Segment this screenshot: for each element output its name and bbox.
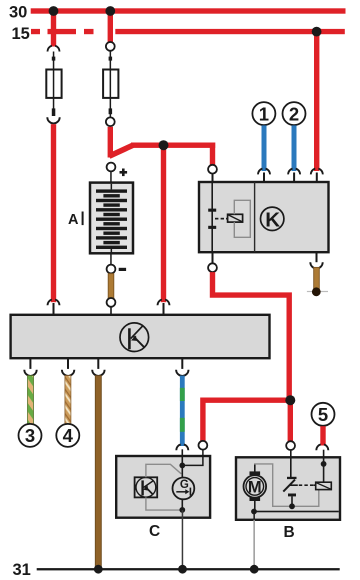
svg-text:A: A	[68, 212, 79, 228]
motor top lead	[254, 464, 256, 472]
B ground stem through box	[253, 512, 255, 520]
wire: brown relay to ground	[314, 267, 320, 289]
wire: red from fuse S2 to battery plus	[108, 127, 113, 158]
C internal grey link bottom	[146, 497, 180, 510]
wire: blue from terminal 1 to relay	[262, 125, 267, 171]
svg-text:C: C	[149, 523, 160, 540]
wire: red from bus15 down to relay	[314, 32, 319, 171]
minus sign	[119, 268, 126, 271]
C pin from red terminal	[183, 450, 203, 466]
connector circle at C (red)	[199, 441, 208, 450]
relay top-left pin	[212, 174, 214, 183]
motor brushes	[250, 471, 261, 475]
node dot motor ground	[251, 509, 257, 515]
connector arc at C top	[176, 444, 180, 450]
wire: brown to ground 31	[95, 376, 101, 569]
wire: tan/white to terminal 4	[65, 376, 71, 425]
cluster bottom pin 4	[181, 358, 183, 369]
pump motor M	[244, 475, 267, 498]
battery A box	[90, 183, 133, 254]
svg-text:15: 15	[12, 25, 30, 43]
relay internal divider	[254, 182, 255, 252]
wire: red from bus30 to fuse S2	[108, 11, 113, 42]
connector circle relay bottom-left	[208, 263, 217, 272]
fuse S2 lead	[110, 51, 112, 70]
cluster bottom pin 2	[67, 358, 69, 369]
fuse S1	[46, 70, 61, 98]
connector arc above fuse S1	[47, 46, 51, 52]
relay winding bars	[208, 209, 216, 212]
relay internal grey bracket	[234, 200, 250, 237]
wire: red junction to sender C	[203, 400, 293, 441]
sender unit C box	[116, 456, 210, 518]
terminal circle 1	[252, 102, 275, 125]
bus 31	[37, 568, 340, 570]
wire: red down to relay top-left terminal	[210, 143, 215, 165]
B internal ground rail	[254, 511, 339, 513]
wire: red from junction down to cluster box	[161, 145, 166, 302]
B internal grey link	[254, 464, 319, 506]
wire: red junction down to pump B	[288, 400, 293, 441]
ground rail hint	[307, 291, 328, 292]
switch ground stem	[291, 496, 293, 506]
battery plates	[96, 189, 127, 192]
wire: red from bus30 to fuse S1	[51, 11, 56, 47]
switch top contact	[287, 477, 297, 479]
connector arc below fuse S1	[47, 117, 59, 123]
cluster bottom pin 1	[29, 358, 31, 369]
node dot above G	[179, 463, 185, 469]
wire: red from fuse S1 down to cluster box	[51, 124, 56, 302]
ground point dot	[312, 287, 321, 296]
connector circle below fuse S2	[106, 117, 115, 126]
relay J17 box	[199, 182, 329, 252]
connector arc relay bottom-right	[310, 262, 322, 268]
connector arc cluster bottom 3	[92, 370, 104, 376]
svg-text:M: M	[248, 478, 262, 496]
motor bottom lead	[254, 501, 256, 512]
node: junction dot C / 31	[178, 565, 187, 574]
switch blade	[283, 480, 295, 492]
connector circle relay top-left	[208, 165, 217, 174]
C ground stem inside box	[182, 499, 184, 510]
connector arc cluster bottom 2	[62, 370, 74, 376]
wire: blue from terminal 2 to relay	[292, 125, 297, 171]
C pin from blue/green terminal	[182, 449, 184, 477]
battery stem stubs	[111, 184, 113, 190]
svg-text:K: K	[265, 208, 280, 231]
node dot B top right	[321, 461, 327, 467]
node: junction dot bus30 / fuse2 wire	[105, 6, 115, 16]
relay bottom-right pin	[316, 252, 318, 262]
fuse S2	[103, 70, 118, 98]
connector arc cluster bottom 1	[24, 370, 36, 376]
B mech link dashes	[299, 484, 302, 486]
connector circle at B (red)	[286, 441, 295, 450]
fuel gauge sender G	[173, 478, 195, 500]
svg-text:3: 3	[25, 425, 35, 446]
svg-text:4: 4	[63, 425, 74, 446]
node: junction dot B / 31	[250, 565, 259, 574]
svg-text:G: G	[180, 479, 189, 491]
connector arc cluster top left (red)	[47, 300, 51, 306]
svg-text:30: 30	[9, 4, 27, 22]
fuse S1 lower lead	[53, 98, 55, 109]
connector arc relay top a	[258, 169, 262, 175]
node dot switch ground	[289, 503, 295, 509]
B coil feed from terminal 5	[323, 450, 325, 464]
relay bottom-left pin	[212, 252, 214, 263]
relay lamp symbol K	[261, 207, 284, 230]
svg-text:2: 2	[289, 103, 299, 124]
node: junction dot brown wire / 31	[94, 565, 103, 574]
wire: red branch diagonal to relay feed	[109, 145, 133, 156]
B relay coil element	[316, 482, 332, 489]
fuel pump B box	[236, 457, 340, 520]
node: junction dot pump feed	[285, 395, 295, 405]
wire: blue/green to sender C	[180, 376, 185, 446]
connector circle at cluster top	[107, 298, 116, 307]
switch bottom contact	[288, 494, 296, 497]
terminal circle 4	[56, 424, 79, 447]
battery plus connector circle	[107, 163, 116, 172]
bus 15 (dashed)	[31, 29, 40, 34]
relay contact element	[228, 214, 243, 222]
wire: C to ground 31	[182, 510, 184, 568]
svg-text:5: 5	[318, 404, 328, 425]
sensor symbol K in square	[135, 477, 158, 497]
cluster pin	[110, 307, 112, 315]
node: junction dot on relay feed	[159, 140, 169, 150]
terminal circle 5	[312, 403, 335, 426]
cluster lamp symbol K	[120, 323, 149, 352]
wire: B to ground 31	[253, 520, 255, 568]
switch lead from circle terminal	[290, 450, 292, 477]
instrument cluster box	[11, 315, 270, 358]
wire: green/orange to terminal 3	[28, 376, 34, 425]
C internal grey link top	[146, 464, 181, 477]
svg-text:31: 31	[13, 561, 31, 579]
plus sign	[120, 171, 128, 174]
connector circle above fuse S2	[106, 42, 115, 51]
wire: red terminal 5 to pump B	[320, 426, 325, 445]
terminal circle 2	[283, 102, 306, 125]
wire: red horizontal to relay	[131, 143, 215, 148]
node: junction dot bus15 / relay feed	[312, 27, 322, 37]
connector arc relay top c	[311, 169, 315, 175]
relay mech link dashes	[215, 218, 218, 220]
terminal circle 3	[19, 424, 42, 447]
connector arc cluster bottom 4	[176, 370, 188, 376]
wire: brown battery to cluster	[108, 274, 114, 298]
wire: red elbow relay to pump feed	[213, 272, 290, 400]
svg-text:B: B	[284, 524, 295, 541]
cluster bottom pin 3	[97, 358, 99, 369]
battery bottom lead	[110, 253, 112, 264]
connector arc cluster top mid (red)	[157, 300, 161, 306]
node: junction dot bus30 / fuse1 wire	[49, 6, 59, 16]
fuse S1 lead	[53, 52, 55, 71]
relay coil lead (vertical)	[211, 182, 213, 252]
node dot below G	[179, 507, 185, 513]
connector arc relay top b	[288, 169, 292, 175]
battery minus connector circle	[107, 265, 116, 274]
connector arc at B top right	[316, 444, 320, 450]
svg-text:1: 1	[259, 103, 269, 124]
bus 30	[31, 8, 346, 13]
battery top lead	[110, 172, 112, 183]
fuse S2 lower lead	[110, 98, 112, 118]
